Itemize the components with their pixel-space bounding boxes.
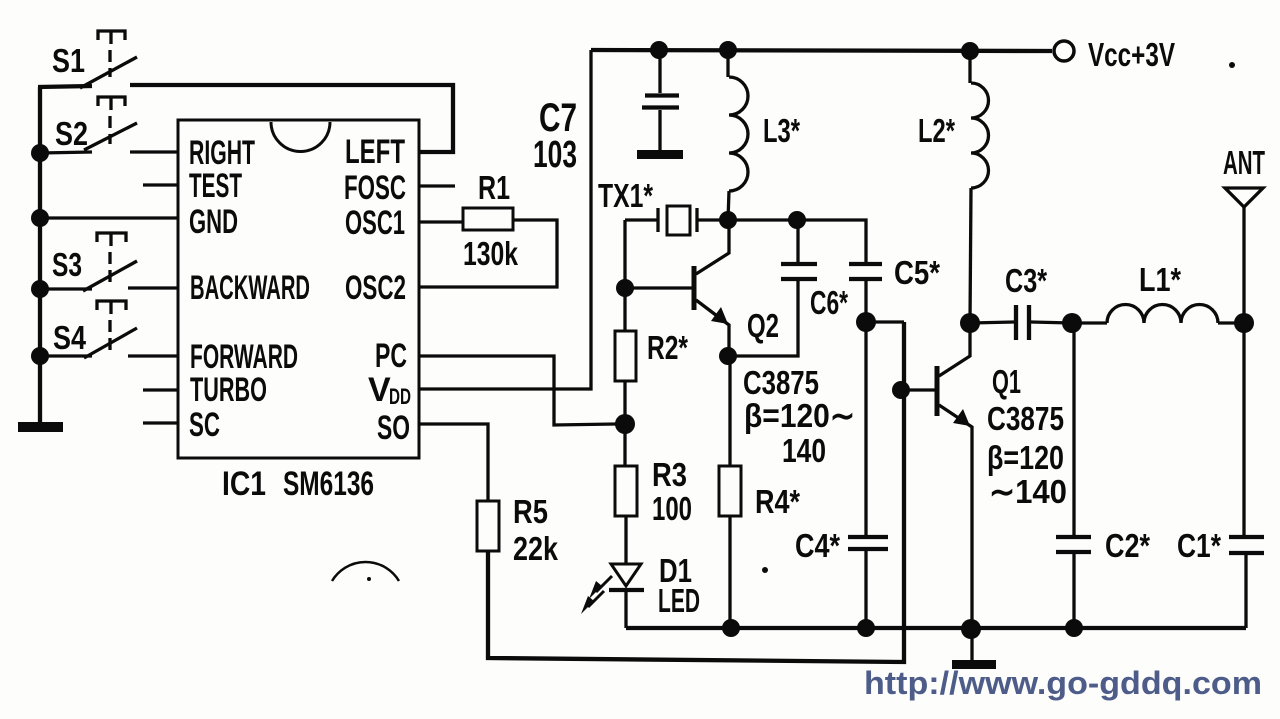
svg-text:C6*: C6*	[810, 284, 848, 321]
svg-text:SC: SC	[189, 406, 220, 444]
svg-text:L1*: L1*	[1139, 261, 1181, 298]
svg-text:∼140: ∼140	[989, 473, 1067, 510]
svg-text:LED: LED	[658, 582, 700, 619]
svg-text:L3*: L3*	[763, 112, 800, 149]
svg-text:β=120: β=120	[987, 439, 1064, 476]
svg-text:S2: S2	[55, 115, 88, 152]
svg-text:OSC2: OSC2	[345, 269, 406, 307]
svg-text:TEST: TEST	[189, 167, 242, 205]
svg-text:β=120∼: β=120∼	[744, 397, 855, 434]
svg-text:IC1: IC1	[222, 465, 266, 503]
svg-text:SO: SO	[377, 409, 410, 447]
svg-text:TX1*: TX1*	[598, 177, 653, 214]
svg-text:C3875: C3875	[987, 400, 1064, 437]
svg-text:Q2: Q2	[747, 307, 779, 344]
svg-text:TURBO: TURBO	[190, 371, 267, 409]
svg-text:S4: S4	[53, 319, 87, 356]
svg-text:130k: 130k	[463, 235, 518, 272]
svg-text:22k: 22k	[513, 530, 559, 567]
svg-text:PC: PC	[375, 337, 407, 375]
svg-text:BACKWARD: BACKWARD	[190, 269, 310, 307]
svg-text:103: 103	[533, 134, 577, 176]
svg-text:C3875: C3875	[743, 364, 819, 401]
svg-text:S1: S1	[52, 42, 85, 79]
svg-text:OSC1: OSC1	[345, 204, 405, 242]
svg-text:C5*: C5*	[894, 254, 940, 291]
svg-text:100: 100	[652, 490, 692, 527]
svg-text:R3: R3	[652, 456, 687, 493]
svg-text:140: 140	[782, 432, 826, 469]
svg-text:SM6136: SM6136	[283, 465, 374, 503]
svg-text:LEFT: LEFT	[345, 133, 405, 171]
svg-text:Vcc+3V: Vcc+3V	[1088, 36, 1175, 73]
svg-text:C1*: C1*	[1177, 527, 1221, 564]
svg-text:R1: R1	[478, 169, 510, 206]
svg-text:L2*: L2*	[918, 112, 955, 149]
svg-text:R2*: R2*	[647, 329, 688, 366]
svg-text:Q1: Q1	[992, 363, 1021, 400]
svg-text:S3: S3	[52, 246, 82, 283]
svg-text:R5: R5	[513, 493, 548, 530]
svg-text:DD: DD	[389, 384, 411, 409]
svg-text:http://www.go-gddq.com: http://www.go-gddq.com	[864, 665, 1262, 701]
svg-text:C3*: C3*	[1005, 262, 1047, 299]
svg-text:R4*: R4*	[755, 483, 800, 520]
svg-text:C2*: C2*	[1105, 527, 1150, 564]
svg-text:ANT: ANT	[1223, 144, 1265, 181]
svg-text:FOSC: FOSC	[344, 169, 406, 207]
svg-text:V: V	[368, 371, 391, 409]
svg-text:C4*: C4*	[795, 527, 840, 564]
svg-text:GND: GND	[189, 203, 238, 241]
